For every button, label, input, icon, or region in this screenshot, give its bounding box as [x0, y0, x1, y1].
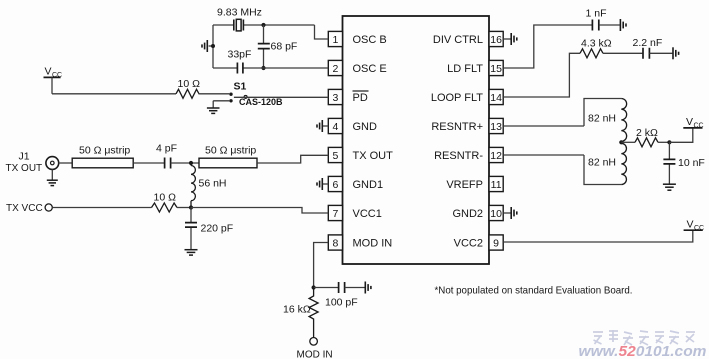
ground stub at crystal left — [202, 40, 213, 52]
pin 3 — [328, 89, 342, 104]
node MOD IN junction — [312, 285, 316, 289]
pin 2 — [328, 60, 342, 75]
pin name GND1 — [353, 179, 384, 191]
svg-text:RESNTR-: RESNTR- — [434, 150, 483, 162]
wire junction to pin 7 — [191, 208, 328, 214]
wire 4pF to microstrip 2 — [171, 162, 199, 164]
wire PD net to pin 3 — [234, 96, 328, 98]
svg-text:13: 13 — [490, 121, 502, 133]
resistor 2 kOhm — [621, 127, 669, 147]
wire TX VCC to resistor — [52, 207, 151, 209]
resistor 4.3 kOhm — [580, 38, 612, 58]
pin name DIV CTRL — [433, 34, 483, 46]
svg-text:TX OUT: TX OUT — [353, 150, 394, 162]
node crystal top junction — [261, 23, 265, 27]
ground under 220 pF — [185, 250, 198, 255]
capacitor 10 nF — [663, 142, 704, 184]
svg-text:10 Ω: 10 Ω — [154, 192, 177, 204]
svg-text:16: 16 — [490, 34, 502, 46]
svg-text:10: 10 — [490, 208, 502, 220]
pin name VREFP — [446, 179, 483, 191]
svg-text:DIV CTRL: DIV CTRL — [433, 34, 483, 46]
capacitor 2.2 nF — [633, 37, 673, 59]
ground at 100 pF — [365, 282, 371, 294]
wire pin 14 to 4.3k — [503, 53, 580, 97]
svg-text:VCC1: VCC1 — [353, 208, 382, 220]
wire crystal left vertical — [212, 25, 214, 68]
pin 11 — [489, 176, 503, 191]
pin name GND — [353, 121, 378, 133]
svg-text:2 kΩ: 2 kΩ — [636, 127, 658, 139]
svg-text:10 nF: 10 nF — [678, 157, 705, 169]
svg-text:12: 12 — [490, 150, 502, 162]
ground under J1 — [47, 169, 58, 185]
svg-text:RESNTR+: RESNTR+ — [431, 121, 483, 133]
svg-text:82 nH: 82 nH — [588, 113, 616, 125]
pin 12 — [489, 147, 503, 162]
svg-text:68 pF: 68 pF — [271, 40, 298, 52]
crystal Y1 9.83 MHz — [217, 7, 262, 31]
pin name VCC1 — [353, 208, 382, 220]
svg-text:CC: CC — [52, 72, 62, 79]
ground under S1 — [207, 108, 220, 113]
svg-text:220 pF: 220 pF — [201, 223, 234, 235]
svg-text:1: 1 — [332, 34, 338, 46]
wire resistor to switch contact — [199, 93, 230, 95]
svg-text:3: 3 — [332, 92, 338, 104]
svg-text:10 Ω: 10 Ω — [178, 78, 201, 90]
pin name RESNTR+ — [431, 121, 483, 133]
inductor 56 nH — [191, 163, 227, 208]
svg-text:TX VCC: TX VCC — [6, 203, 43, 214]
svg-text:9: 9 — [493, 238, 499, 250]
svg-text:4.3 kΩ: 4.3 kΩ — [581, 38, 612, 50]
pin name VCC2 — [454, 238, 483, 250]
pin 8 — [328, 235, 342, 250]
pin 13 — [489, 118, 503, 133]
svg-text:GND: GND — [353, 121, 378, 133]
pin 4 — [328, 118, 342, 133]
microstrip 50 Ohm (left) — [72, 145, 133, 168]
svg-text:1 nF: 1 nF — [586, 8, 607, 20]
ground at pin 4 — [317, 120, 328, 132]
node osc-e bottom junction — [261, 66, 265, 70]
wire pin 9 to Vcc — [503, 231, 693, 242]
svg-text:16 kΩ: 16 kΩ — [283, 304, 311, 316]
pin name LD FLT — [447, 63, 483, 75]
svg-text:15: 15 — [490, 63, 502, 75]
wire J1 to microstrip — [59, 162, 72, 164]
switch S1 CAS-120B — [229, 81, 283, 107]
wire pin 12 to resonator — [503, 154, 584, 156]
svg-text:50 Ω μstrip: 50 Ω μstrip — [79, 145, 130, 157]
op-amp U1 IC body — [343, 16, 490, 264]
pin 6 — [328, 176, 342, 191]
terminal MOD IN — [297, 338, 333, 359]
svg-text:www.520101.com: www.520101.com — [579, 343, 707, 359]
svg-text:LOOP FLT: LOOP FLT — [431, 92, 483, 104]
svg-text:S1: S1 — [234, 81, 247, 93]
capacitor 1 nF — [586, 8, 620, 31]
svg-text:56 nH: 56 nH — [199, 178, 227, 190]
capacitor 33pF — [228, 49, 252, 74]
svg-text:V: V — [45, 66, 52, 78]
Vcc terminal (resonator) — [669, 116, 703, 142]
capacitor 68 pF — [258, 25, 298, 68]
svg-text:GND2: GND2 — [452, 208, 483, 220]
capacitor 100 pF — [314, 282, 365, 309]
wire crystal top net — [213, 25, 328, 39]
svg-text:9.83 MHz: 9.83 MHz — [217, 7, 262, 19]
svg-text:*Not populated on standard Eva: *Not populated on standard Evaluation Bo… — [435, 285, 633, 297]
wire microstrip2 to pin 5 — [257, 155, 328, 163]
svg-text:OSC B: OSC B — [353, 34, 387, 46]
pin 1 — [328, 31, 342, 46]
inductor 82 nH (top) — [588, 99, 627, 143]
node 2k / 10nF junction — [667, 140, 671, 144]
ground at 1 nF — [620, 19, 626, 31]
svg-text:11: 11 — [491, 179, 502, 191]
wire pin 8 to MOD IN node — [314, 243, 329, 288]
svg-text:V: V — [686, 116, 693, 128]
wire OSC E net — [213, 67, 328, 69]
svg-text:CAS-120B: CAS-120B — [239, 97, 283, 107]
pin name GND2 — [452, 208, 483, 220]
pin name OSC B — [353, 34, 387, 46]
wire resonator frame — [584, 99, 621, 185]
watermark line 2 www.520101.com — [579, 343, 707, 359]
svg-text:J1: J1 — [19, 151, 30, 163]
svg-text:82 nH: 82 nH — [588, 157, 616, 169]
wire resistor to junction — [177, 207, 191, 209]
svg-text:8: 8 — [332, 238, 338, 250]
Vcc terminal (VCC2) — [684, 218, 705, 232]
pin 14 — [489, 89, 503, 104]
wire Vcc to resistor — [52, 93, 176, 95]
pin name LOOP FLT — [431, 92, 483, 104]
microstrip 50 Ohm (right) — [199, 145, 257, 168]
pin 15 — [489, 60, 503, 75]
ground at pin 6 — [317, 178, 328, 190]
pin 5 — [328, 147, 342, 162]
svg-text:MOD IN: MOD IN — [297, 349, 333, 359]
svg-text:50 Ω μstrip: 50 Ω μstrip — [205, 145, 256, 157]
svg-text:2: 2 — [332, 63, 338, 75]
svg-text:100 pF: 100 pF — [325, 297, 358, 309]
svg-text:CC: CC — [694, 225, 704, 232]
svg-text:7: 7 — [332, 208, 338, 220]
svg-text:OSC E: OSC E — [353, 63, 387, 75]
resistor 10 Ohm (PD) — [176, 78, 200, 98]
wire pin 13 to resonator — [503, 125, 584, 127]
ground at pin 16 — [503, 33, 517, 45]
svg-text:4 pF: 4 pF — [156, 142, 177, 154]
svg-text:2.2 nF: 2.2 nF — [633, 37, 663, 49]
pin 10 — [489, 205, 503, 220]
wire microstrip to 4pF — [133, 162, 164, 164]
svg-text:LD FLT: LD FLT — [447, 63, 483, 75]
svg-text:MOD IN: MOD IN — [353, 238, 393, 250]
svg-text:VCC2: VCC2 — [454, 238, 483, 250]
resistor 10 Ohm (TX VCC) — [152, 192, 177, 212]
ground at 2.2 nF — [673, 47, 679, 59]
svg-text:6: 6 — [332, 179, 338, 191]
node resonator centre tap — [619, 140, 623, 144]
svg-text:GND1: GND1 — [353, 179, 384, 191]
capacitor 4 pF — [156, 142, 177, 168]
watermark line 1 (site name glyphs) — [593, 330, 695, 345]
wire 4.3k to 2.2nF — [603, 52, 642, 54]
pin name RESNTR- — [434, 150, 483, 162]
pin 9 — [489, 235, 503, 250]
pin name MOD IN — [353, 238, 393, 250]
node TX VCC junction — [189, 205, 193, 209]
capacitor 220 pF — [185, 208, 233, 250]
svg-text:VREFP: VREFP — [446, 179, 483, 191]
resistor 16 kOhm — [283, 288, 318, 338]
pin 16 — [489, 31, 503, 46]
svg-text:V: V — [687, 218, 694, 230]
svg-text:5: 5 — [332, 150, 338, 162]
svg-text:CC: CC — [694, 123, 704, 130]
svg-text:TX OUT: TX OUT — [6, 163, 43, 174]
pin name PD (active low) — [353, 91, 369, 104]
pin name TX OUT — [353, 150, 394, 162]
svg-text:33pF: 33pF — [228, 49, 252, 61]
svg-text:14: 14 — [490, 92, 502, 104]
wire switch lower contact to ground — [213, 101, 229, 108]
node TX OUT junction — [189, 161, 193, 165]
ground at pin 10 — [503, 207, 517, 219]
terminal TX VCC — [6, 203, 52, 214]
connector J1 TX OUT — [6, 151, 59, 175]
note text — [435, 285, 633, 297]
ground under 10 nF — [663, 184, 676, 190]
svg-text:PD: PD — [353, 92, 368, 104]
wire pin 15 to 1 nF — [503, 25, 592, 68]
pin name OSC E — [353, 63, 387, 75]
inductor 82 nH (bottom) — [588, 142, 626, 184]
svg-text:4: 4 — [332, 121, 338, 133]
Vcc terminal (PD pull-up) — [44, 66, 63, 94]
pin 7 — [328, 205, 342, 220]
node crystal-left junction — [211, 44, 215, 48]
